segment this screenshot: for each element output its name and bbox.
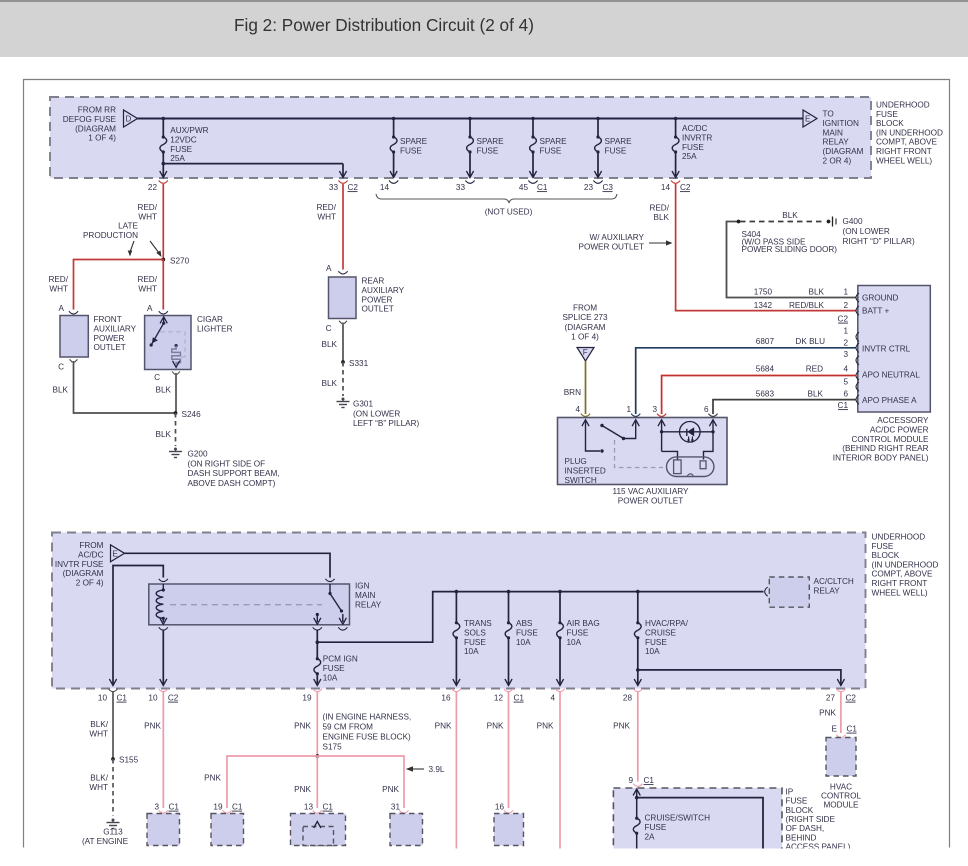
label RED/BLK [649, 204, 669, 222]
pin 10 C2 connector [148, 689, 178, 703]
svg-text:D: D [126, 115, 132, 124]
label FRONT AUXILIARY POWER OUTLET [94, 315, 137, 352]
svg-text:C2: C2 [846, 694, 857, 703]
relay coil K1 [156, 584, 167, 624]
svg-text:C1: C1 [232, 803, 243, 812]
svg-text:BLK: BLK [53, 386, 69, 395]
svg-text:FUSE: FUSE [400, 146, 422, 155]
svg-text:S175: S175 [323, 743, 343, 752]
underhood fuse block U1 (top dashed box) [50, 97, 871, 178]
svg-text:23: 23 [584, 183, 594, 192]
fuse ABS 10A [505, 592, 512, 686]
label RED/WHT (cigar) [137, 275, 157, 293]
svg-text:10A: 10A [567, 638, 582, 647]
relay coil top connector [159, 579, 168, 582]
svg-text:E: E [832, 725, 838, 734]
svg-text:PNK: PNK [294, 722, 311, 731]
label AIR BAG FUSE 10A [567, 619, 600, 647]
pin 45 C1 connector (not used) [519, 181, 548, 193]
wire BLK front outlet to S246 [74, 361, 176, 413]
svg-text:12: 12 [494, 694, 504, 703]
label PLUG INSERTED SWITCH [565, 457, 606, 485]
pin 33 connector (not used) [456, 181, 475, 193]
svg-text:FUSE: FUSE [682, 143, 704, 152]
svg-text:3: 3 [154, 803, 159, 812]
svg-text:C2: C2 [838, 315, 849, 324]
svg-text:13: 13 [304, 803, 314, 812]
svg-text:C2: C2 [168, 694, 179, 703]
label FROM RR DEFOG FUSE [63, 106, 117, 143]
pin 16 connector (lower) [495, 803, 513, 814]
svg-text:BLK: BLK [654, 213, 670, 222]
svg-text:1750: 1750 [754, 288, 773, 297]
bus wire from D to E [138, 117, 804, 119]
svg-text:C: C [154, 373, 160, 382]
svg-text:27: 27 [826, 694, 836, 703]
svg-text:UNDERHOOD: UNDERHOOD [872, 533, 926, 542]
pin 31 connector [391, 803, 409, 814]
label RED/WHT (rear outlet) [316, 203, 336, 221]
pin 9 C1 connector [628, 776, 654, 786]
wire pin6 down to outlet [704, 432, 714, 460]
svg-text:31: 31 [391, 803, 401, 812]
relay linkage (dashed) [170, 604, 322, 606]
svg-text:AIR BAG: AIR BAG [567, 619, 600, 628]
off-page connector D (from RR defog fuse) [124, 110, 138, 127]
label C1 (module) [838, 401, 849, 410]
wire PNK pin10C2 to 3 C1 [162, 692, 164, 808]
svg-text:SPARE: SPARE [605, 137, 633, 146]
svg-text:SPARE: SPARE [400, 137, 428, 146]
svg-text:DK BLU: DK BLU [795, 337, 825, 346]
svg-text:HVAC/RPA/: HVAC/RPA/ [645, 619, 689, 628]
svg-text:PNK: PNK [204, 774, 221, 783]
svg-text:FUSE: FUSE [786, 797, 808, 806]
svg-text:WHT: WHT [89, 783, 108, 792]
svg-text:1: 1 [843, 327, 848, 336]
svg-text:(ON LOWER: (ON LOWER [353, 409, 400, 418]
label CRUISE/SWITCH FUSE 2A [645, 814, 711, 842]
wire PNK pin16 down (continues) [455, 692, 457, 849]
svg-text:SWITCH: SWITCH [565, 476, 597, 485]
svg-text:CIGAR: CIGAR [197, 315, 223, 324]
svg-text:2: 2 [843, 339, 848, 348]
wire BLK/WHT S155 to G113 (dashed) [112, 759, 114, 816]
wire PNK pin12C1 to 16 [508, 692, 510, 808]
module pin numbers C1 [843, 327, 848, 399]
rear auxiliary power outlet box [329, 277, 357, 319]
callout arrow (w/ auxiliary) [649, 240, 673, 245]
svg-text:G301: G301 [353, 400, 373, 409]
svg-text:BLK/: BLK/ [90, 720, 108, 729]
svg-text:(ON LOWER: (ON LOWER [843, 227, 890, 236]
pin 33 C2 connector [329, 181, 359, 193]
outlet right slot [700, 461, 706, 469]
splice S270 [161, 257, 189, 266]
node: bus2 taps [455, 590, 640, 594]
pin 10 C1 connector [98, 689, 128, 703]
callout arrow 3.9L [406, 766, 424, 772]
svg-text:(DIAGRAM: (DIAGRAM [823, 147, 864, 156]
svg-text:A: A [59, 304, 65, 313]
fuse AIR BAG 10A [556, 592, 563, 686]
cigar lighter heating element [172, 344, 181, 367]
svg-text:PNK: PNK [435, 722, 452, 731]
svg-text:FROM: FROM [573, 304, 597, 313]
wire HVAC fuse to pin 27 C2 [636, 668, 845, 685]
svg-text:C1: C1 [838, 401, 849, 410]
wire PNK pin19 to S175 [316, 692, 318, 756]
plug switch: pin1 lead [624, 420, 636, 439]
svg-text:RIGHT “D” PILLAR): RIGHT “D” PILLAR) [843, 237, 915, 246]
fuse PCM IGN 10A [314, 642, 321, 685]
wire BLK S404 to G400 (dashed) [740, 221, 825, 223]
svg-text:5684: 5684 [756, 365, 775, 374]
svg-text:E: E [113, 550, 118, 559]
svg-text:(RIGHT SIDE: (RIGHT SIDE [786, 815, 836, 824]
svg-text:TRANS: TRANS [464, 619, 492, 628]
svg-text:C: C [58, 363, 64, 372]
fuse AUX/PWR 12VDC 25A [160, 119, 167, 178]
svg-text:MODULE: MODULE [823, 801, 859, 810]
wire RED/WHT pin22 to S270 [162, 184, 164, 260]
svg-text:2: 2 [843, 301, 848, 310]
module box 13 C1 (dashed) [291, 814, 346, 846]
wire relay out to bus2 [316, 592, 764, 644]
pin C front outlet [58, 359, 77, 371]
label AUX/PWR 12VDC FUSE 25A [170, 126, 208, 163]
svg-text:DASH SUPPORT BEAM,: DASH SUPPORT BEAM, [188, 469, 280, 478]
svg-text:INVRTR: INVRTR [682, 133, 712, 142]
svg-text:3: 3 [652, 405, 657, 414]
label circuit 1750 BLK pin 1 [754, 288, 849, 297]
svg-text:AC/DC: AC/DC [78, 550, 104, 559]
wire PNK pin4 down (continues) [559, 692, 561, 849]
wire BLK S246 to G200 (dashed) [175, 413, 177, 446]
pin C rear outlet [326, 321, 347, 333]
wire IP block internal bus [637, 798, 763, 849]
svg-text:INSERTED: INSERTED [565, 466, 606, 475]
svg-text:C2: C2 [680, 183, 691, 192]
wire RED/BLK pin 14C2 to module pin2 [676, 184, 857, 311]
svg-text:WHEEL WELL): WHEEL WELL) [872, 588, 928, 597]
relay switch top connector [325, 579, 334, 582]
svg-text:POWER: POWER [94, 334, 125, 343]
svg-text:AUXILIARY: AUXILIARY [362, 286, 405, 295]
svg-text:FROM RR: FROM RR [78, 106, 116, 115]
svg-text:FUSE: FUSE [540, 146, 562, 155]
pin A front outlet [59, 304, 79, 314]
svg-text:28: 28 [623, 694, 633, 703]
wire pin6 to outlet slot [712, 420, 714, 432]
svg-text:FUSE: FUSE [872, 542, 894, 551]
pin 19 C1 connector [213, 803, 243, 814]
pin 14 C2 connector [661, 181, 691, 193]
wire BLK/WHT pin10C1 to S155 [112, 692, 114, 759]
svg-text:RELAY: RELAY [355, 600, 382, 609]
svg-text:(ON RIGHT SIDE OF: (ON RIGHT SIDE OF [188, 459, 266, 468]
label TRANS SOLS FUSE 10A [464, 619, 492, 656]
plug switch pin arrows [582, 420, 717, 427]
svg-text:BLK: BLK [808, 390, 824, 399]
label S404 [742, 230, 838, 254]
label TO IGNITION MAIN RELAY [823, 110, 864, 166]
plug switch: pin4 lead [586, 420, 601, 451]
svg-text:COMPT, ABOVE: COMPT, ABOVE [876, 138, 938, 147]
svg-text:FRONT: FRONT [94, 315, 122, 324]
svg-text:FUSE: FUSE [170, 145, 192, 154]
wire: fuse branch to pin 33 C2 [163, 164, 346, 178]
label LATE PRODUCTION [83, 222, 139, 240]
svg-text:INVTR CTRL: INVTR CTRL [862, 345, 911, 354]
label UNDERHOOD FUSE BLOCK (top right) [876, 101, 943, 166]
svg-text:OUTLET: OUTLET [94, 343, 126, 352]
svg-text:BRN: BRN [564, 388, 581, 397]
label G400 [843, 217, 915, 246]
pin 22 connector [148, 181, 168, 193]
svg-text:RED/: RED/ [649, 204, 669, 213]
plug switch linkage (dashed) [615, 440, 664, 468]
front auxiliary power outlet box [60, 316, 88, 358]
svg-text:10A: 10A [323, 673, 338, 682]
svg-text:PNK: PNK [487, 722, 504, 731]
svg-text:9: 9 [628, 776, 633, 785]
svg-text:IGNITION: IGNITION [823, 119, 859, 128]
svg-text:1 OF 4): 1 OF 4) [571, 333, 599, 342]
svg-text:PNK: PNK [144, 722, 161, 731]
svg-text:RIGHT FRONT: RIGHT FRONT [876, 147, 932, 156]
indicator lamp LED symbol [687, 427, 694, 443]
svg-text:CONTROL: CONTROL [821, 792, 861, 801]
svg-text:INTERIOR BODY PANEL): INTERIOR BODY PANEL) [833, 454, 929, 463]
svg-text:6: 6 [843, 390, 848, 399]
wire PNK pin28 to 9 C1 [637, 692, 639, 782]
svg-text:ABS: ABS [516, 619, 533, 628]
fuse CRUISE/SWITCH 2A [633, 798, 640, 849]
svg-text:SOLS: SOLS [464, 628, 486, 637]
pin 3 C1 connector [154, 803, 179, 814]
wire PNK S175 branch right to 31 [317, 756, 404, 808]
svg-text:RELAY: RELAY [823, 138, 850, 147]
svg-text:2 OF 4): 2 OF 4) [76, 579, 104, 588]
svg-text:A: A [147, 304, 153, 313]
svg-text:19: 19 [302, 694, 312, 703]
svg-text:(DIAGRAM: (DIAGRAM [75, 124, 116, 133]
svg-text:APO PHASE A: APO PHASE A [862, 396, 917, 405]
svg-text:G400: G400 [843, 217, 863, 226]
outlet face (stadium) [667, 457, 714, 477]
pin 1 plug switch [626, 405, 640, 416]
svg-text:FUSE: FUSE [645, 823, 667, 832]
fuse SPARE 2 [466, 119, 473, 178]
fuse HVAC/RPA/CRUISE 10A [634, 592, 641, 686]
IGN main relay box [149, 584, 350, 625]
svg-text:5683: 5683 [756, 390, 775, 399]
svg-text:(BEHIND RIGHT REAR: (BEHIND RIGHT REAR [842, 444, 928, 453]
svg-text:FROM: FROM [79, 541, 103, 550]
svg-text:(IN UNDERHOOD: (IN UNDERHOOD [872, 560, 939, 569]
svg-text:16: 16 [495, 803, 505, 812]
svg-text:RED/: RED/ [137, 275, 157, 284]
svg-text:SPLICE 273: SPLICE 273 [562, 313, 608, 322]
svg-text:PNK: PNK [819, 709, 836, 718]
svg-text:BLK: BLK [156, 386, 172, 395]
svg-text:AC/DC: AC/DC [682, 124, 708, 133]
fuse AC/DC INVRTR 25A [672, 119, 679, 178]
label SPARE FUSE 1 [400, 137, 428, 155]
svg-text:C1: C1 [847, 725, 858, 734]
svg-text:RED/: RED/ [48, 275, 68, 284]
svg-text:G113: G113 [103, 828, 123, 837]
label circuit 6807 DK BLU [756, 337, 825, 346]
label W/ AUXILIARY POWER OUTLET [578, 233, 644, 251]
svg-text:(IN ENGINE HARNESS,: (IN ENGINE HARNESS, [323, 713, 412, 722]
svg-text:POWER SLIDING DOOR): POWER SLIDING DOOR) [742, 245, 838, 254]
label PCM IGN FUSE 10A [323, 655, 358, 683]
pin A cigar lighter [147, 304, 168, 314]
svg-text:(DIAGRAM: (DIAGRAM [565, 323, 606, 332]
svg-text:AUXILIARY: AUXILIARY [94, 324, 137, 333]
svg-text:10: 10 [148, 694, 158, 703]
svg-text:FUSE: FUSE [323, 664, 345, 673]
svg-text:A: A [326, 264, 332, 273]
svg-text:C1: C1 [323, 803, 334, 812]
svg-text:6807: 6807 [756, 337, 775, 346]
bracket (NOT USED) [376, 194, 617, 203]
wire BLK module pin1 to S404 [727, 222, 857, 298]
svg-text:S246: S246 [182, 410, 202, 419]
label AC/CLTCH RELAY [814, 577, 854, 595]
svg-text:FUSE: FUSE [645, 638, 667, 647]
svg-text:WHT: WHT [138, 212, 157, 221]
svg-text:5: 5 [843, 378, 848, 387]
label IGN MAIN RELAY [355, 582, 382, 610]
svg-text:RED/: RED/ [316, 203, 336, 212]
label G301 [353, 400, 420, 429]
svg-text:115 VAC AUXILIARY: 115 VAC AUXILIARY [613, 487, 690, 496]
label HVAC/RPA/CRUISE FUSE 10A [645, 619, 689, 656]
module box 19 C1 (dashed) [211, 814, 244, 846]
label circuit 5684 RED [756, 365, 823, 374]
svg-text:12VDC: 12VDC [170, 135, 196, 144]
svg-text:BLK: BLK [322, 379, 338, 388]
svg-text:59 CM FROM: 59 CM FROM [323, 723, 374, 732]
label G113 [82, 828, 129, 847]
svg-text:S270: S270 [170, 257, 190, 266]
svg-text:APO NEUTRAL: APO NEUTRAL [862, 371, 920, 380]
svg-text:SPARE: SPARE [477, 137, 505, 146]
svg-text:4: 4 [843, 365, 848, 374]
label RED/WHT (front outlet) [48, 275, 68, 293]
pin 4 connector [550, 689, 564, 703]
label BLK/WHT (upper) [89, 720, 108, 738]
label circuit 1342 RED/BLK pin 2 [754, 301, 849, 310]
svg-text:FUSE: FUSE [605, 146, 627, 155]
svg-text:FUSE: FUSE [477, 146, 499, 155]
pin 3 plug switch [652, 405, 666, 416]
svg-text:14: 14 [661, 183, 671, 192]
svg-text:AC/CLTCH: AC/CLTCH [814, 577, 854, 586]
ground G113 [107, 819, 120, 829]
label FROM SPLICE 273 [562, 304, 608, 342]
svg-text:(DIAGRAM: (DIAGRAM [63, 569, 104, 578]
svg-text:(IN UNDERHOOD: (IN UNDERHOOD [876, 128, 943, 137]
cigar lighter box [145, 316, 191, 370]
svg-text:10A: 10A [645, 647, 660, 656]
wire PNK S175 branch left to 19 C1 [227, 756, 317, 808]
wire to pin 10 C1 [113, 566, 163, 686]
svg-text:C1: C1 [644, 776, 655, 785]
label SPARE FUSE 3 [540, 137, 568, 155]
module box 3 C1 (dashed) [147, 814, 180, 846]
svg-text:CONTROL MODULE: CONTROL MODULE [851, 435, 929, 444]
svg-text:BLK: BLK [156, 430, 172, 439]
ground G400 (connector symbol) [827, 217, 836, 227]
node: bus taps [162, 117, 678, 121]
cigar lighter switch symbol [150, 317, 168, 347]
fuse SPARE 3 [529, 119, 536, 178]
wire RED 5684 pin3 to module [662, 376, 857, 415]
svg-text:ACCESSORY: ACCESSORY [877, 416, 929, 425]
svg-text:BLK: BLK [782, 211, 798, 220]
svg-text:FUSE: FUSE [876, 110, 898, 119]
arrow into IP fuse block [633, 789, 640, 796]
pin A rear outlet [326, 264, 348, 274]
svg-text:PNK: PNK [382, 785, 399, 794]
pin E C1 connector (HVAC module) [832, 725, 858, 738]
svg-text:PCM IGN: PCM IGN [323, 655, 358, 664]
svg-text:ENGINE FUSE BLOCK): ENGINE FUSE BLOCK) [323, 733, 412, 742]
svg-text:INVTR FUSE: INVTR FUSE [55, 560, 104, 569]
svg-text:BLOCK: BLOCK [876, 119, 904, 128]
svg-text:POWER OUTLET: POWER OUTLET [618, 496, 684, 505]
svg-text:AC/DC POWER: AC/DC POWER [870, 425, 929, 434]
svg-text:45: 45 [519, 183, 529, 192]
pin 4 plug switch [575, 405, 590, 416]
pin 23 C3 connector (not used) [584, 181, 614, 193]
svg-text:POWER OUTLET: POWER OUTLET [578, 242, 644, 251]
wire lamp to pin6 lead [711, 430, 714, 433]
svg-text:WHT: WHT [138, 284, 157, 293]
svg-text:25A: 25A [170, 154, 185, 163]
wire PNK pin27C2 to HVAC module [840, 692, 842, 733]
svg-text:PRODUCTION: PRODUCTION [83, 231, 138, 240]
svg-text:F: F [583, 348, 588, 357]
relay terminal connectors below [159, 627, 348, 630]
wire PNK S175 down to 13 C1 [316, 756, 318, 808]
svg-text:IGN: IGN [355, 582, 370, 591]
pin 13 C1 connector [304, 803, 334, 814]
AC/CLTCH relay box (dashed) [769, 577, 809, 607]
label ACCESSORY AC/DC POWER CONTROL MODULE [833, 416, 929, 463]
crop mask bottom [0, 849, 968, 866]
label ABS FUSE 10A [516, 619, 538, 647]
wire E2 to relay switch [125, 553, 331, 577]
label BLK/WHT (lower) [89, 774, 108, 792]
HVAC control module box (dashed) [826, 738, 856, 777]
svg-text:RED: RED [806, 365, 823, 374]
splice S175 [315, 754, 319, 758]
outlet left slot [674, 460, 682, 474]
svg-text:DEFOG FUSE: DEFOG FUSE [63, 115, 117, 124]
svg-text:RELAY: RELAY [814, 586, 841, 595]
svg-text:MAIN: MAIN [355, 591, 376, 600]
accessory AC/DC power control module box [858, 286, 931, 413]
svg-text:PNK: PNK [537, 722, 554, 731]
label RED/WHT (pin22) [137, 203, 157, 221]
wire DK BLU 6807 pin1 to module [636, 348, 857, 414]
wire pin3 down to outlet [662, 451, 678, 459]
